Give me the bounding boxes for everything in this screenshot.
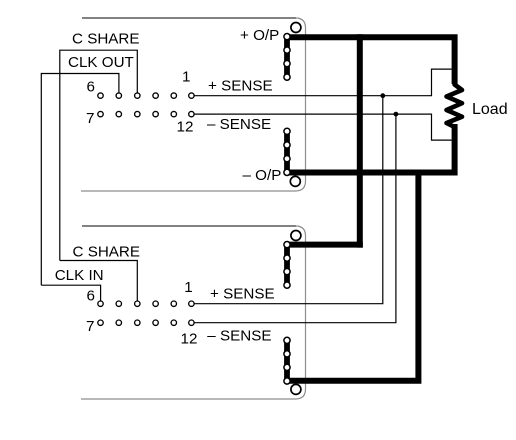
- svg-text:C SHARE: C SHARE: [72, 31, 140, 48]
- svg-text:12: 12: [181, 331, 198, 348]
- connector pins U1 row 7-12: [98, 111, 194, 116]
- junction +SENSE: [380, 93, 385, 98]
- svg-text:7: 7: [86, 110, 94, 127]
- mounting hole U2 top-right: [291, 231, 301, 241]
- terminal strip -O/P U2: [284, 337, 290, 384]
- svg-text:– SENSE: – SENSE: [207, 116, 271, 133]
- svg-text:1: 1: [184, 279, 192, 296]
- svg-text:+ SENSE: + SENSE: [210, 286, 275, 303]
- connector pins U2 row 6-1: [98, 301, 194, 306]
- wire C SHARE U2: [60, 261, 138, 301]
- svg-text:CLK OUT: CLK OUT: [68, 54, 134, 71]
- wire -O/P bus U1 to load bottom: [287, 124, 458, 176]
- mounting hole U1 top-right: [291, 23, 301, 33]
- resistor Load: [447, 85, 463, 128]
- terminal strip +O/P U1: [284, 34, 290, 81]
- svg-text:– O/P: – O/P: [243, 167, 282, 184]
- wire CLK IN U2: [41, 285, 100, 301]
- svg-text:6: 6: [87, 288, 95, 305]
- module U1 (top power supply outline): [81, 18, 306, 191]
- terminal strip -O/P U1: [284, 128, 290, 175]
- junction -SENSE: [394, 112, 399, 117]
- wire C SHARE U1: [60, 50, 138, 260]
- wire -SENSE U1 to load: [194, 114, 452, 140]
- wire +O/P bus U1 to load top: [287, 37, 455, 84]
- connector pins U2 row 7-12: [98, 320, 194, 325]
- svg-text:CLK IN: CLK IN: [55, 267, 104, 284]
- svg-text:12: 12: [177, 118, 194, 135]
- wire +SENSE U2 riser: [194, 96, 383, 304]
- mounting hole U1 bottom-right: [290, 176, 300, 186]
- terminal strip +O/P U2: [284, 242, 290, 289]
- connector pins U1 row 6-1: [98, 93, 194, 98]
- module U2 (bottom power supply outline): [81, 226, 306, 399]
- wire +SENSE U1 to load: [194, 69, 452, 96]
- svg-text:+ SENSE: + SENSE: [208, 78, 273, 95]
- svg-text:Load: Load: [472, 101, 508, 118]
- svg-text:1: 1: [182, 68, 190, 85]
- mounting hole U2 bottom-right: [291, 384, 301, 394]
- wire -SENSE U2 riser: [194, 114, 396, 323]
- svg-text:– SENSE: – SENSE: [207, 327, 271, 344]
- svg-text:C SHARE: C SHARE: [73, 243, 141, 260]
- svg-text:7: 7: [86, 318, 94, 335]
- svg-text:6: 6: [87, 78, 95, 95]
- svg-text:+ O/P: + O/P: [240, 27, 279, 44]
- wire - bus vertical U2 to U1: [287, 170, 421, 384]
- wire +O/P bus U2: [288, 242, 363, 248]
- wire + bus vertical U1 to U2: [357, 34, 363, 247]
- wire CLK OUT U1: [41, 74, 119, 286]
